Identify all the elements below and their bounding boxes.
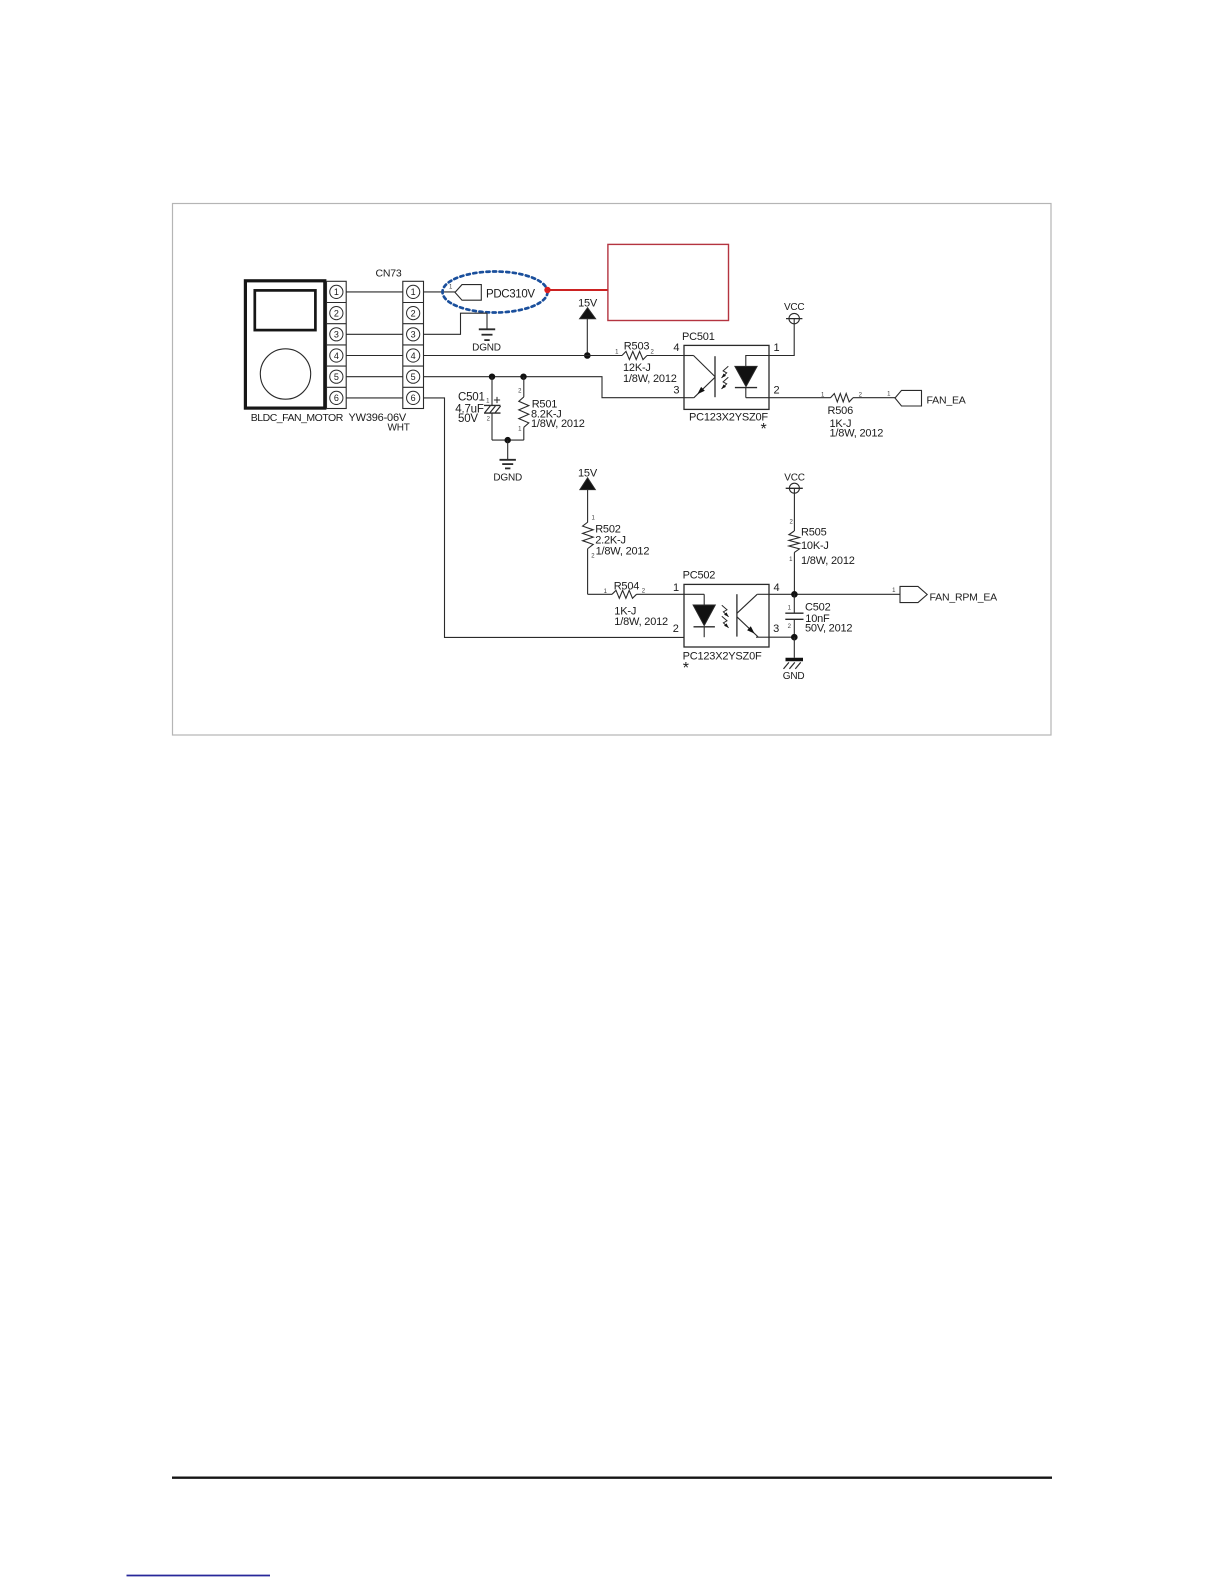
svg-text:1/8W, 2012: 1/8W, 2012: [801, 555, 855, 567]
svg-text:1: 1: [773, 342, 779, 354]
svg-text:1/8W, 2012: 1/8W, 2012: [596, 546, 650, 558]
svg-text:WHT: WHT: [388, 423, 410, 434]
svg-text:4: 4: [334, 351, 339, 361]
svg-text:6: 6: [334, 393, 339, 403]
svg-text:2: 2: [773, 385, 779, 397]
svg-text:50V: 50V: [458, 413, 478, 425]
svg-text:BLDC_FAN_MOTOR: BLDC_FAN_MOTOR: [251, 412, 344, 424]
svg-text:6: 6: [411, 393, 416, 403]
svg-text:1/8W, 2012: 1/8W, 2012: [614, 616, 668, 628]
svg-text:3: 3: [411, 330, 416, 340]
svg-text:R503: R503: [624, 340, 650, 352]
svg-text:CN73: CN73: [376, 268, 402, 280]
svg-text:4: 4: [411, 351, 416, 361]
svg-text:PC123X2YSZ0F: PC123X2YSZ0F: [689, 411, 768, 423]
svg-text:C502: C502: [805, 602, 831, 614]
svg-text:1/8W, 2012: 1/8W, 2012: [623, 373, 677, 385]
svg-text:1: 1: [411, 287, 416, 297]
svg-text:2: 2: [334, 308, 339, 318]
svg-text:R504: R504: [614, 581, 640, 593]
svg-text:3: 3: [773, 623, 779, 635]
svg-text:PC123X2YSZ0F: PC123X2YSZ0F: [683, 651, 762, 663]
svg-text:DGND: DGND: [472, 343, 501, 354]
svg-text:3: 3: [334, 330, 339, 340]
svg-text:VCC: VCC: [784, 302, 805, 313]
svg-text:*: *: [683, 660, 689, 677]
svg-text:FAN_EA: FAN_EA: [927, 394, 966, 406]
svg-text:R506: R506: [828, 405, 854, 417]
svg-text:VCC: VCC: [784, 473, 805, 484]
svg-text:50V, 2012: 50V, 2012: [805, 623, 852, 635]
svg-text:PC502: PC502: [683, 570, 716, 582]
svg-text:4: 4: [673, 342, 679, 354]
svg-text:GND: GND: [783, 671, 805, 682]
svg-text:10K-J: 10K-J: [801, 540, 829, 552]
svg-text:C501: C501: [458, 392, 485, 404]
svg-text:1: 1: [334, 287, 339, 297]
svg-text:4: 4: [773, 582, 779, 594]
svg-text:2: 2: [411, 308, 416, 318]
svg-text:2: 2: [673, 623, 679, 635]
svg-text:R505: R505: [801, 527, 827, 539]
svg-text:*: *: [761, 421, 767, 438]
svg-text:1/8W, 2012: 1/8W, 2012: [830, 428, 884, 440]
svg-text:1/8W, 2012: 1/8W, 2012: [531, 418, 585, 430]
svg-text:5: 5: [411, 372, 416, 382]
svg-text:DGND: DGND: [493, 473, 522, 484]
svg-text:FAN_RPM_EA: FAN_RPM_EA: [930, 591, 998, 603]
svg-text:5: 5: [334, 372, 339, 382]
svg-text:1: 1: [673, 582, 679, 594]
svg-text:3: 3: [673, 384, 679, 396]
svg-text:PC501: PC501: [682, 331, 715, 343]
svg-text:PDC310V: PDC310V: [486, 288, 535, 300]
svg-text:15V: 15V: [578, 298, 598, 310]
